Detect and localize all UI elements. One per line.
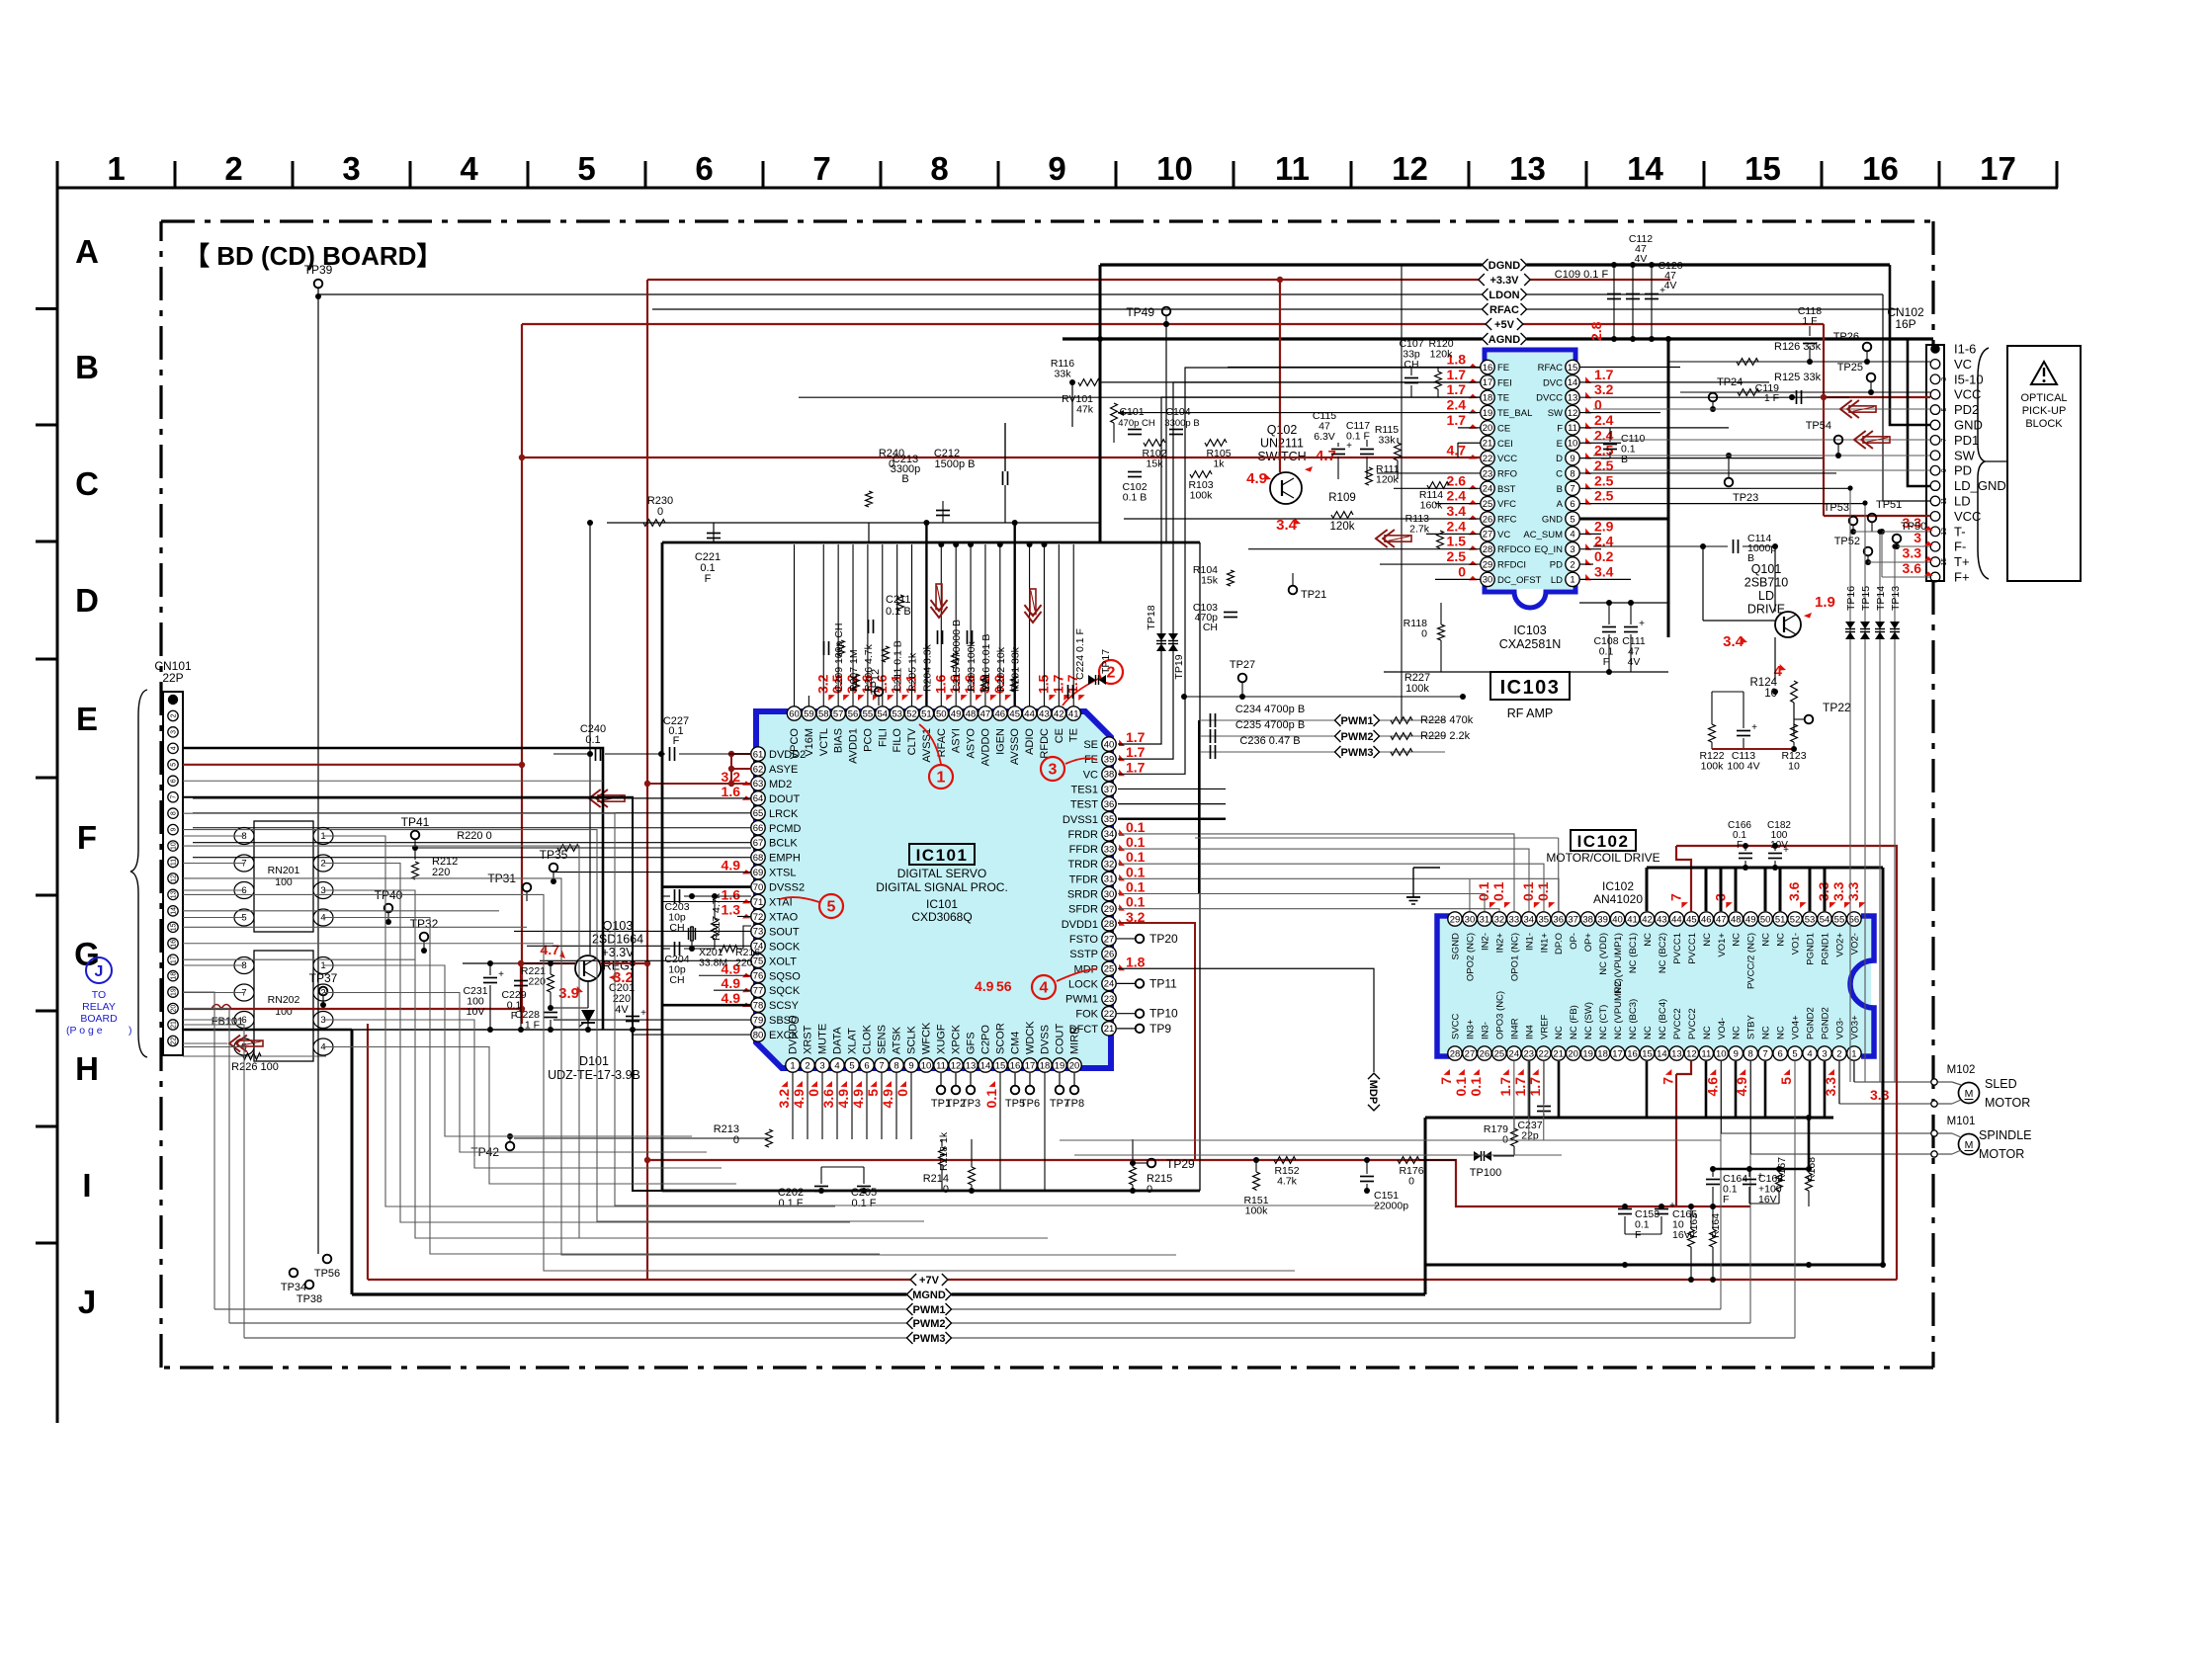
- test point TP3: [970, 1073, 972, 1085]
- IC102 pin 52 VO1-: [1788, 912, 1802, 926]
- net MDP tag: [1367, 1073, 1380, 1111]
- svg-text:49: 49: [1745, 914, 1756, 925]
- capacitor C164: [1706, 1179, 1720, 1181]
- svg-text:RF AMP: RF AMP: [1507, 706, 1554, 720]
- resistor R118: [1438, 624, 1445, 640]
- resistor R218: [939, 1147, 946, 1165]
- IC103 pin 5 GND: [1566, 512, 1579, 526]
- svg-text:4: 4: [171, 746, 178, 750]
- IC101 pin 76 SQSO: [751, 968, 765, 982]
- IC101 pin 18 DVSS: [1038, 1058, 1052, 1072]
- svg-text:VO3+: VO3+: [1849, 1015, 1860, 1039]
- svg-text:3.3: 3.3: [1870, 1087, 1890, 1103]
- IC101 pin 5 XLAT: [845, 1058, 859, 1072]
- svg-text:19: 19: [1055, 1060, 1065, 1071]
- svg-text:TP25: TP25: [1837, 362, 1863, 374]
- svg-text:1: 1: [1570, 575, 1574, 586]
- svg-text:DIGITAL SERVO: DIGITAL SERVO: [897, 867, 986, 880]
- svg-text:5: 5: [171, 763, 178, 767]
- svg-text:DGND: DGND: [1489, 260, 1520, 272]
- wire AGND drop2: [1667, 519, 1670, 637]
- IC103 pin 3 EQ_IN: [1566, 542, 1579, 556]
- IC101 pin 6 CLOK: [860, 1058, 874, 1072]
- svg-text:SW: SW: [1548, 408, 1563, 419]
- CN102 pin 5 PD2: [1930, 405, 1940, 415]
- svg-text:0.1 B: 0.1 B: [1123, 492, 1148, 504]
- svg-text:77: 77: [753, 986, 764, 997]
- svg-text:1.7: 1.7: [1126, 729, 1146, 745]
- IC101 pin 63 MD2: [751, 777, 765, 790]
- svg-text:5: 5: [1570, 514, 1574, 525]
- resistor R230: [643, 520, 665, 527]
- wire DVSS left bus: [661, 542, 664, 1191]
- test points TP13-16: [1849, 488, 1851, 1082]
- test point TP42: [506, 1142, 515, 1151]
- wire c108 bus: [1579, 602, 1668, 604]
- svg-text:44: 44: [1671, 914, 1682, 925]
- svg-text:DP.O: DP.O: [1554, 933, 1565, 955]
- svg-text:2.9: 2.9: [1594, 518, 1614, 534]
- svg-text:SPINDLE: SPINDLE: [1979, 1128, 2032, 1142]
- svg-text:C2PO: C2PO: [980, 1025, 992, 1054]
- svg-text:DVSS1: DVSS1: [1063, 814, 1098, 826]
- svg-text:PWM3: PWM3: [1341, 747, 1374, 759]
- svg-text:12: 12: [1568, 408, 1578, 419]
- svg-text:UN2111: UN2111: [1260, 437, 1304, 451]
- svg-text:2.5: 2.5: [1594, 488, 1614, 504]
- IC102 pin 36 DP.O: [1552, 912, 1566, 926]
- svg-text:R204 3.3k: R204 3.3k: [921, 643, 933, 692]
- svg-text:13: 13: [1671, 1048, 1682, 1059]
- wire DGND drop: [1099, 265, 1102, 542]
- svg-text:LOCK: LOCK: [1068, 978, 1099, 990]
- svg-text:0.1: 0.1: [1126, 849, 1146, 865]
- svg-text:2.4: 2.4: [1447, 397, 1467, 413]
- capacitor C117: [1360, 449, 1374, 451]
- IC101 label: [909, 844, 975, 865]
- svg-text:78: 78: [753, 1000, 764, 1011]
- svg-text:TP54: TP54: [1806, 420, 1831, 432]
- svg-text:69: 69: [753, 868, 764, 878]
- svg-text:3.2: 3.2: [776, 1089, 792, 1109]
- svg-text:3.4: 3.4: [1594, 563, 1614, 579]
- CN101 pin 8: [168, 808, 178, 818]
- IC101 pin 35 DVSS1: [1102, 812, 1116, 826]
- capacitor C235: [1199, 735, 1445, 737]
- wire PWM3 riser: [1794, 1061, 1796, 1338]
- capacitor C112: [1632, 265, 1634, 339]
- svg-text:1.7: 1.7: [1497, 1077, 1513, 1097]
- RN201 risers: [356, 836, 835, 1206]
- svg-text:CM4: CM4: [1010, 1032, 1022, 1054]
- IC101 pin 44 ADIO: [1022, 706, 1036, 720]
- svg-text:1.7: 1.7: [1447, 367, 1467, 382]
- svg-text:I5-10: I5-10: [1954, 372, 1984, 386]
- svg-text:2.5: 2.5: [1594, 457, 1614, 473]
- svg-text:NC: NC: [1761, 1026, 1772, 1039]
- IC103 pin 25 VFC: [1481, 496, 1494, 510]
- svg-text:M102: M102: [1947, 1064, 1976, 1076]
- svg-text:4: 4: [1807, 1048, 1812, 1059]
- arrow pd1: [1854, 431, 1866, 449]
- svg-text:Q102: Q102: [1267, 423, 1298, 437]
- IC101 pin 13 GFS: [964, 1058, 978, 1072]
- svg-text:EMPH: EMPH: [769, 853, 801, 865]
- svg-text:61: 61: [753, 749, 764, 760]
- svg-text:9: 9: [171, 828, 178, 832]
- svg-text:72: 72: [753, 912, 764, 923]
- svg-text:6: 6: [171, 779, 178, 783]
- wire IC102 gnd drop 1786: [1764, 1061, 1767, 1118]
- IC102 pin 27 IN3+: [1463, 1046, 1477, 1060]
- IC102 pin 38 OP+: [1580, 912, 1594, 926]
- svg-text:H: H: [75, 1050, 99, 1087]
- svg-text:10V: 10V: [467, 1006, 485, 1018]
- CN102 pin 11 LD: [1930, 496, 1940, 506]
- svg-text:LD: LD: [1758, 589, 1774, 603]
- svg-text:63: 63: [753, 779, 764, 789]
- wire PVCC2 feed: [1675, 1074, 1677, 1206]
- wire q101 bottom red: [1712, 748, 1794, 750]
- IC103 pin 18 TE: [1481, 390, 1494, 404]
- svg-text:27: 27: [1483, 530, 1493, 540]
- svg-text:42: 42: [1054, 708, 1064, 719]
- svg-text:TP41: TP41: [401, 815, 430, 829]
- IC103 pin 26 RFC: [1481, 512, 1494, 526]
- IC101 pin 3 MUTE: [815, 1058, 829, 1072]
- svg-text:PWM2: PWM2: [913, 1318, 946, 1330]
- test point TP23: [1725, 478, 1734, 487]
- svg-text:TP9: TP9: [1149, 1022, 1171, 1036]
- CN101 pin 17: [168, 955, 178, 964]
- svg-text:4.9: 4.9: [975, 978, 994, 994]
- svg-text:1: 1: [790, 1060, 795, 1071]
- svg-text:11: 11: [1941, 497, 1948, 504]
- svg-text:XTAO: XTAO: [769, 911, 799, 923]
- svg-text:20: 20: [1568, 1048, 1578, 1059]
- svg-text:F: F: [673, 735, 680, 747]
- svg-text:2.4: 2.4: [1594, 427, 1614, 443]
- svg-text:21: 21: [171, 1021, 178, 1029]
- svg-text:M: M: [1965, 1139, 1974, 1151]
- svg-text:C236 0.47 B: C236 0.47 B: [1239, 735, 1300, 747]
- svg-text:4: 4: [1040, 980, 1049, 997]
- wire IC102 gnd drop 1577: [1558, 1061, 1561, 1118]
- CN101 pin 22: [168, 1036, 178, 1045]
- resistor R120: [1435, 372, 1442, 389]
- svg-text:CXD3068Q: CXD3068Q: [911, 910, 972, 924]
- svg-text:53: 53: [892, 708, 902, 719]
- svg-text:4.7: 4.7: [1447, 443, 1467, 458]
- svg-text:EQ_IN: EQ_IN: [1534, 544, 1563, 555]
- svg-text:13: 13: [966, 1060, 977, 1071]
- svg-text:RN201: RN201: [268, 865, 300, 876]
- svg-text:TP16: TP16: [1845, 586, 1857, 611]
- svg-text:TP34: TP34: [281, 1282, 306, 1293]
- svg-text:11: 11: [171, 859, 178, 866]
- svg-text:PVCC2: PVCC2: [1672, 1008, 1683, 1039]
- svg-text:22000p: 22000p: [1374, 1201, 1408, 1212]
- IC102 pin 20 NC (FB): [1566, 1046, 1579, 1060]
- svg-text:80: 80: [753, 1030, 764, 1040]
- svg-text:48: 48: [966, 708, 977, 719]
- CN101 pin 5: [168, 760, 178, 770]
- svg-text:NC: NC: [1761, 933, 1772, 947]
- IC101 pin 64 DOUT: [751, 791, 765, 805]
- svg-text:3: 3: [1570, 544, 1574, 555]
- svg-text:15: 15: [171, 923, 178, 931]
- svg-text:CLOK: CLOK: [862, 1024, 874, 1054]
- wire spindle pin8: [1749, 1061, 1751, 1154]
- svg-text:B: B: [901, 473, 908, 485]
- svg-text:0.1 F: 0.1 F: [778, 1198, 803, 1209]
- wire in wires: [1060, 1139, 1721, 1141]
- IC102 pin 8 STBY: [1744, 1046, 1757, 1060]
- IC102 pin 31 IN2-: [1478, 912, 1491, 926]
- IC101 bottom pin wires: [792, 1072, 794, 1139]
- svg-text:C224 0.1 F: C224 0.1 F: [1074, 628, 1086, 680]
- IC101 pin 40 SE: [1102, 737, 1116, 751]
- capacitor C101: [1128, 429, 1142, 431]
- wire IC102 pwr drop 1846: [1824, 868, 1827, 911]
- svg-text:AVDDO: AVDDO: [979, 728, 991, 767]
- IC101 pin 59 V16M: [802, 706, 815, 720]
- IC102 pin 13 PVCC2: [1669, 1046, 1683, 1060]
- IC102 pin 2 VO3-: [1832, 1046, 1846, 1060]
- svg-text:E: E: [76, 701, 98, 737]
- arrow RFAC in: [931, 584, 948, 618]
- IC101 pin 1 DVDDO: [786, 1058, 800, 1072]
- CN101 pin 20: [168, 1003, 178, 1013]
- wire DVSS bottom bus: [662, 1190, 1200, 1193]
- wire reg output: [600, 962, 647, 964]
- IC103 pin 9 D: [1566, 451, 1579, 464]
- svg-text:8: 8: [893, 1060, 898, 1071]
- test point TP34: [290, 1269, 298, 1278]
- svg-text:PVCC2: PVCC2: [1687, 1008, 1698, 1039]
- wire mgnd mid: [1185, 1190, 1200, 1192]
- IC103 left pin wires: [1228, 367, 1481, 369]
- IC102 pin 28 SVCC: [1448, 1046, 1462, 1060]
- IC103 pin 28 RFDCO: [1481, 542, 1494, 556]
- svg-text:F: F: [1737, 840, 1743, 851]
- svg-text:53: 53: [1805, 914, 1816, 925]
- svg-text:C104: C104: [1165, 406, 1190, 418]
- svg-text:LD_GND: LD_GND: [1954, 478, 2006, 493]
- svg-text:FOK: FOK: [1075, 1009, 1098, 1021]
- CN101 pin 21: [168, 1020, 178, 1030]
- IC103 pin 20 CE: [1481, 421, 1494, 435]
- svg-text:0.1: 0.1: [1520, 881, 1536, 901]
- svg-text:5: 5: [827, 899, 836, 916]
- svg-text:30: 30: [1465, 914, 1476, 925]
- svg-text:9: 9: [1048, 150, 1065, 187]
- grid ruler top: [57, 187, 2058, 190]
- svg-text:VO3-: VO3-: [1834, 1018, 1845, 1039]
- svg-text:100k: 100k: [1245, 1205, 1269, 1217]
- svg-text:IGEN: IGEN: [994, 728, 1006, 755]
- op-amp IC101 body: [756, 711, 1111, 1068]
- svg-text:10: 10: [1156, 150, 1193, 187]
- svg-text:41: 41: [1627, 914, 1638, 925]
- svg-text:FB101: FB101: [212, 1016, 243, 1028]
- CN101 pin 7: [168, 792, 178, 802]
- resistor R207: [838, 640, 845, 656]
- svg-text:DVC: DVC: [1543, 377, 1563, 388]
- svg-text:TP24: TP24: [1717, 376, 1743, 388]
- svg-text:R163: R163: [1688, 1213, 1700, 1238]
- IC103 pin 22 VCC: [1481, 451, 1494, 464]
- test point TP39: [314, 280, 323, 289]
- CN102 pin 4 VCC: [1930, 389, 1940, 399]
- svg-text:RN202: RN202: [268, 994, 300, 1006]
- test point TP100: [1474, 1151, 1482, 1161]
- IC101 pin 9 SCLK: [904, 1058, 918, 1072]
- svg-text:9: 9: [1941, 468, 1948, 472]
- test point TP5: [1014, 1073, 1016, 1085]
- IC102 pin 35 IN1+: [1537, 912, 1551, 926]
- svg-text:AVDD1: AVDD1: [848, 728, 860, 764]
- svg-text:5: 5: [1792, 1048, 1797, 1059]
- wire tp24 row: [1593, 408, 1930, 410]
- svg-text:4V: 4V: [1628, 656, 1641, 668]
- wire C213 up: [1004, 423, 1006, 471]
- svg-text:NC: NC: [1732, 933, 1743, 947]
- test point TP10: [1117, 1013, 1135, 1015]
- svg-text:45: 45: [1686, 914, 1697, 925]
- svg-text:16: 16: [171, 940, 178, 948]
- svg-text:47k: 47k: [1076, 404, 1094, 416]
- svg-text:3.3: 3.3: [1830, 881, 1846, 901]
- IC102 pin 23 IN4: [1522, 1046, 1536, 1060]
- IC101 pin 12 XPCK: [949, 1058, 963, 1072]
- wire DVSS1: [1118, 817, 1226, 820]
- svg-text:TP19: TP19: [1173, 654, 1185, 679]
- svg-text:10: 10: [171, 842, 178, 850]
- test point TP18: [1156, 633, 1166, 651]
- IC101 pin 73 SOUT: [751, 924, 765, 938]
- svg-text:62: 62: [753, 764, 764, 775]
- svg-text:1: 1: [937, 770, 946, 787]
- svg-text:2: 2: [1570, 559, 1574, 570]
- svg-text:3.4: 3.4: [1723, 633, 1744, 650]
- IC103 pin 19 TE_BAL: [1481, 405, 1494, 419]
- IC102 pin 9 NC: [1729, 1046, 1743, 1060]
- svg-text:DVSS: DVSS: [1040, 1025, 1052, 1054]
- CN102 pin 15 T+: [1930, 557, 1940, 567]
- svg-text:J: J: [78, 1284, 96, 1320]
- svg-text:15k: 15k: [1147, 458, 1164, 470]
- svg-text:21: 21: [1104, 1024, 1115, 1035]
- net +7V rail: [368, 1279, 1897, 1281]
- svg-text:0.1: 0.1: [1126, 894, 1146, 910]
- capacitor C211: [868, 620, 870, 633]
- svg-text:R203 100k: R203 100k: [966, 640, 978, 692]
- svg-text:1k: 1k: [1213, 458, 1225, 470]
- svg-text:CXA2581N: CXA2581N: [1499, 637, 1562, 651]
- capacitor C237: [1537, 1106, 1551, 1108]
- svg-text:MIRR: MIRR: [1069, 1027, 1081, 1054]
- svg-text:NC (BC3): NC (BC3): [1628, 999, 1639, 1039]
- svg-text:TP56: TP56: [314, 1268, 340, 1280]
- svg-text:0.1: 0.1: [1535, 881, 1551, 901]
- test point TP32: [420, 933, 429, 942]
- TP27 wire: [1184, 696, 1463, 698]
- svg-text:2: 2: [224, 150, 242, 187]
- IC103 pin 7 B: [1566, 481, 1579, 495]
- resistor R152: [1274, 1157, 1296, 1164]
- IC102 pin 14 NC (BC4): [1655, 1046, 1668, 1060]
- svg-text:TP23: TP23: [1733, 492, 1758, 504]
- capacitor C182: [1768, 853, 1782, 855]
- svg-text:IN4: IN4: [1524, 1025, 1535, 1039]
- svg-text:28: 28: [1104, 919, 1115, 930]
- svg-text:F: F: [1635, 1229, 1641, 1241]
- wire Q103 base: [463, 962, 575, 964]
- IC102 pin 26 IN3-: [1478, 1046, 1491, 1060]
- resistor R176: [1398, 1157, 1419, 1164]
- IC102 pin 18 NC (CT): [1595, 1046, 1609, 1060]
- svg-text:1.7: 1.7: [1126, 759, 1146, 775]
- svg-text:FRDR: FRDR: [1067, 829, 1098, 841]
- svg-text:71: 71: [753, 897, 764, 908]
- svg-text:SCLK: SCLK: [906, 1026, 918, 1054]
- test point TP54: [1834, 436, 1843, 445]
- capacitor C120: [1651, 265, 1653, 339]
- svg-text:48: 48: [1731, 914, 1742, 925]
- svg-text:64: 64: [753, 793, 764, 804]
- svg-text:6: 6: [695, 150, 713, 187]
- svg-text:160k: 160k: [1420, 500, 1444, 512]
- svg-text:PD: PD: [1954, 463, 1972, 478]
- test point TP2: [955, 1073, 957, 1085]
- svg-text:38: 38: [1582, 914, 1593, 925]
- svg-text:TP49: TP49: [1126, 305, 1154, 319]
- CN102 pin 6 GND: [1930, 420, 1940, 430]
- ferrite bead FB101: [212, 1005, 231, 1010]
- svg-text:21: 21: [1553, 1048, 1564, 1059]
- svg-text:PCO: PCO: [862, 728, 874, 752]
- svg-text:F: F: [1557, 423, 1563, 434]
- capacitor C221: [713, 523, 715, 542]
- svg-text:VC: VC: [1497, 530, 1510, 540]
- svg-text:4: 4: [460, 150, 478, 187]
- svg-text:17: 17: [1025, 1060, 1036, 1071]
- svg-text:+: +: [1346, 441, 1352, 452]
- svg-text:24: 24: [1509, 1048, 1520, 1059]
- svg-text:AGND: AGND: [1489, 334, 1520, 346]
- svg-text:PWM1: PWM1: [1341, 715, 1374, 727]
- svg-text:NC (BC4): NC (BC4): [1658, 999, 1668, 1039]
- reg output dot: [644, 960, 650, 966]
- svg-text:): ): [128, 1025, 132, 1037]
- svg-text:TP11: TP11: [1149, 976, 1177, 990]
- CN102 pin 14 F-: [1930, 541, 1940, 551]
- svg-text:NC: NC: [1554, 1026, 1565, 1039]
- transistor Q101 LD drive: [1775, 612, 1801, 637]
- svg-text:IC102: IC102: [1602, 879, 1634, 893]
- test point TP51: [1868, 514, 1877, 523]
- svg-text:FEI: FEI: [1497, 377, 1512, 388]
- svg-text:1.7: 1.7: [1447, 412, 1467, 428]
- svg-text:79: 79: [753, 1015, 764, 1026]
- svg-text:A: A: [1557, 499, 1564, 510]
- resistor R220: [415, 847, 751, 849]
- svg-text:1.6: 1.6: [722, 887, 741, 903]
- svg-text:23: 23: [1524, 1048, 1535, 1059]
- svg-text:35: 35: [1538, 914, 1549, 925]
- wire c164 bus: [1713, 1168, 1809, 1171]
